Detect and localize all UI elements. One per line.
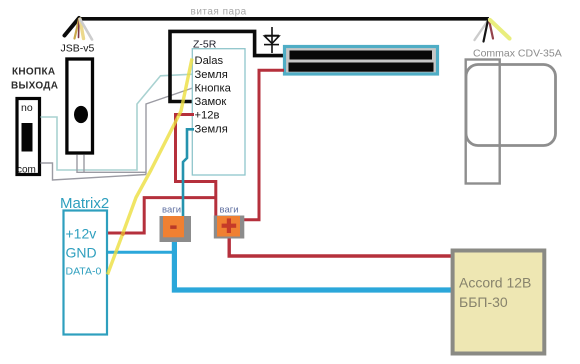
svg-text:DATA-0: DATA-0: [66, 266, 102, 278]
wire: button "no" to Z-5R Земля (pale teal): [41, 74, 194, 170]
wire: Matrix2 +12v to wago+ (red): [108, 198, 216, 233]
controller Z-5R box: [192, 49, 245, 175]
svg-text:Замок: Замок: [195, 96, 227, 108]
svg-text:Accord 12В: Accord 12В: [459, 275, 531, 291]
diode D1 (flyback across lock feed): [264, 27, 279, 53]
svg-text:Земля: Земля: [195, 123, 228, 135]
svg-text:+12v: +12v: [66, 226, 97, 242]
wire: lock to wago+ (red): [244, 70, 285, 220]
reader JSB-v5 button (ellipse): [74, 106, 88, 123]
power supply Accord ББП-30 body: [453, 251, 545, 354]
wire: black loop to Z-5R Замок and lock feed: [170, 31, 283, 101]
Commax monitor (rounded rectangle): [466, 65, 556, 146]
node: yellow/red crossing tint: [121, 232, 125, 236]
svg-text:com: com: [17, 165, 36, 176]
exit button switch bar: [22, 123, 33, 152]
wago connector W2 (plus): [214, 216, 245, 239]
svg-text:ваги: ваги: [162, 205, 181, 216]
reader Matrix2 body: [64, 211, 108, 335]
lock plate bar 2: [289, 63, 434, 72]
svg-text:ВЫХОДА: ВЫХОДА: [11, 81, 58, 92]
exit button body: [17, 99, 40, 175]
wire: Z-5R Земля to wago- (teal): [183, 129, 194, 216]
svg-text:Commax CDV-35A: Commax CDV-35A: [473, 48, 562, 60]
reader JSB-v5 body: [67, 59, 93, 153]
wire: Z-5R +12в to wago+ (red): [176, 115, 216, 217]
svg-text:КНОПКА: КНОПКА: [12, 67, 55, 78]
wire: JSB-v5 cable fan (left apex strands): [65, 18, 93, 40]
svg-text:Кнопка: Кнопка: [195, 83, 232, 95]
svg-text:Земля: Земля: [195, 69, 228, 81]
wire: gray riser to Z-5R Кнопка: [146, 88, 194, 175]
svg-text:no: no: [21, 102, 33, 114]
wire: Z-5R Dalas to Matrix2 DATA-0 (yellow): [108, 59, 193, 275]
svg-text:Dalas: Dalas: [195, 55, 224, 67]
wire: button "com" run (gray): [41, 163, 147, 180]
Commax bracket (narrow rectangle): [466, 60, 500, 184]
wago connector W1 (minus): [160, 216, 192, 242]
svg-text:ваги: ваги: [220, 205, 239, 216]
wire: wago- to Accord GND (cyan thick): [174, 240, 453, 290]
wire: Matrix2 GND to cyan bus: [108, 251, 176, 254]
svg-text:+12в: +12в: [195, 110, 220, 122]
wire: JSB pin 1 (gray): [77, 155, 146, 173]
wire: JSB pin 2 (gray): [83, 155, 85, 173]
wire: wago+ to Accord +12 (red): [229, 238, 453, 256]
lock plate bar 1: [290, 51, 433, 60]
svg-text:витая пара: витая пара: [191, 7, 247, 18]
wire: twisted-pair main run (black, top): [78, 17, 489, 21]
electromagnetic lock body: [285, 47, 438, 75]
svg-text:JSB-v5: JSB-v5: [61, 43, 95, 55]
svg-text:Z-5R: Z-5R: [193, 39, 217, 51]
svg-text:GND: GND: [66, 245, 97, 261]
wire: Commax cable fan (right apex strands): [475, 19, 510, 42]
svg-text:ББП-30: ББП-30: [459, 294, 508, 310]
